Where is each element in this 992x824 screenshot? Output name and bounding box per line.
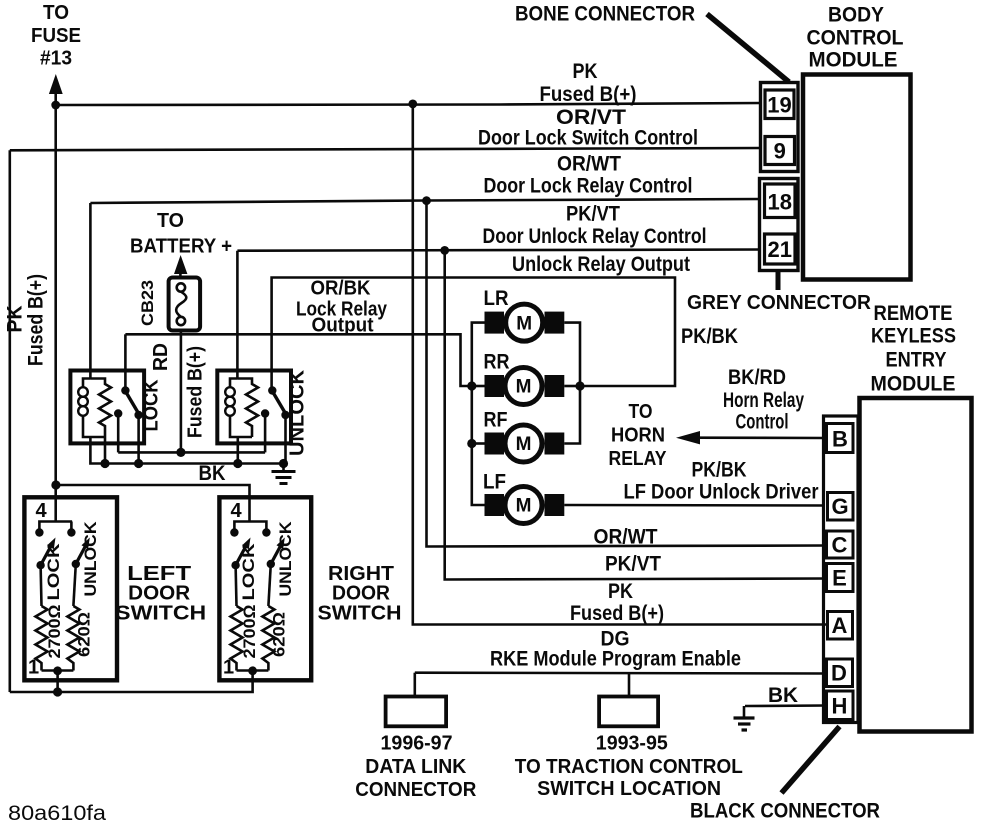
svg-text:PK: PK — [4, 306, 27, 333]
node junction row1/branch A — [408, 100, 417, 109]
svg-text:D: D — [831, 661, 847, 686]
svg-text:GREY CONNECTOR: GREY CONNECTOR — [687, 292, 872, 314]
relay UNLOCK switch — [261, 386, 290, 419]
node junction fuse — [51, 101, 60, 110]
svg-text:PK: PK — [608, 580, 633, 603]
wire motor right bus — [564, 323, 580, 444]
svg-text:KEYLESS: KEYLESS — [871, 325, 956, 348]
wire CB23 output (RD) down to relay common bus — [180, 331, 183, 453]
node junction row4/branch E — [440, 246, 449, 255]
wire lock relay output vertical — [124, 334, 127, 390]
wire left bus stub RR — [472, 385, 485, 388]
ground symbol (relay bus) — [272, 464, 296, 484]
relay LOCK switch — [114, 386, 143, 419]
node junction CB23/bus A — [176, 448, 185, 457]
pin 18 — [765, 184, 796, 218]
switch RIGHT DOOR SWITCH box S2 — [219, 497, 311, 680]
svg-text:Fused B(+): Fused B(+) — [570, 602, 664, 625]
left switch UNLOCK lever — [72, 538, 90, 569]
svg-text:RD: RD — [150, 343, 172, 371]
svg-text:1: 1 — [28, 657, 39, 679]
black connector pointer line — [782, 727, 840, 794]
node junction left bus RF — [467, 439, 476, 448]
svg-text:B: B — [832, 427, 848, 452]
wire bottom return bus — [10, 670, 253, 692]
label TO BATTERY + — [130, 210, 232, 258]
wire unlock relay coil feed vertical — [236, 251, 239, 379]
svg-text:PK/BK: PK/BK — [692, 459, 747, 482]
battery feed arrow — [174, 255, 187, 278]
node junction switch feed — [51, 480, 60, 489]
wire lock switch pole to line A — [117, 414, 120, 453]
remote keyless entry module box U3 — [860, 398, 972, 732]
svg-text:BONE CONNECTOR: BONE CONNECTOR — [515, 3, 695, 26]
svg-text:Door Lock Relay Control: Door Lock Relay Control — [484, 175, 693, 198]
node junction row3/branch C — [422, 196, 431, 205]
relay UNLOCK coil — [225, 379, 252, 438]
svg-text:1: 1 — [223, 657, 234, 679]
label 1993-95 TO TRACTION CONTROL SWITCH LOCATION — [515, 733, 743, 801]
connector block pins 19/9 — [761, 83, 799, 172]
motor RR — [484, 351, 565, 405]
svg-text:DATA LINK: DATA LINK — [365, 756, 467, 778]
label LEFT DOOR SWITCH — [115, 563, 206, 625]
motor LF — [483, 471, 564, 524]
ground symbol (pin H) — [734, 706, 755, 730]
wire OR/WT Door Lock Relay Control row to pin 18 — [90, 199, 762, 203]
relay LOCK coil — [78, 379, 105, 438]
node junction left bus RR — [467, 381, 476, 390]
svg-text:Control: Control — [736, 411, 789, 434]
svg-text:LOCK: LOCK — [45, 543, 63, 600]
svg-text:PK/VT: PK/VT — [605, 553, 661, 576]
node junction right bus RR (unlock output) — [575, 381, 584, 390]
svg-text:RF: RF — [484, 409, 508, 432]
wire lock relay coil feed vertical — [89, 203, 92, 379]
node junction left switch return — [53, 687, 62, 696]
svg-text:BK/RD: BK/RD — [728, 366, 786, 389]
wire fuse vertical to door switches — [54, 105, 57, 522]
wire lock coil return to ground bus — [104, 437, 107, 464]
svg-text:PK/VT: PK/VT — [566, 203, 620, 226]
svg-text:LOCK: LOCK — [141, 379, 163, 432]
svg-text:M: M — [516, 496, 532, 517]
pin B — [827, 424, 854, 453]
svg-text:BATTERY +: BATTERY + — [130, 236, 232, 258]
bone connector pointer line — [707, 14, 789, 82]
RKE connector strip — [824, 416, 859, 723]
wire lock coil corner drop — [90, 437, 285, 464]
pin G — [828, 493, 854, 521]
wire PK Fused B(+) row to pin 19 — [56, 103, 763, 105]
left switch T-bar — [35, 522, 75, 537]
svg-text:Fused B(+): Fused B(+) — [25, 274, 48, 366]
label BK/RD Horn Relay Control — [723, 366, 804, 434]
svg-text:UNLOCK: UNLOCK — [277, 521, 295, 596]
node junction — [100, 459, 109, 468]
svg-text:18: 18 — [768, 190, 792, 215]
wire left edge vertical (switch control) — [9, 150, 12, 692]
node junction — [134, 459, 143, 468]
svg-text:RR: RR — [484, 351, 510, 374]
svg-text:REMOTE: REMOTE — [874, 302, 953, 325]
svg-text:620Ω: 620Ω — [76, 612, 94, 657]
wire Unlock Relay Output row — [272, 278, 675, 391]
node junction ground stub — [279, 459, 288, 468]
svg-text:H: H — [832, 694, 848, 719]
wire RKE module program enable row D — [415, 671, 826, 674]
svg-text:OR/WT: OR/WT — [594, 526, 658, 549]
label OR/BK Lock Relay Output — [296, 278, 388, 337]
svg-text:80a610fa: 80a610fa — [8, 802, 106, 824]
svg-text:RKE Module Program Enable: RKE Module Program Enable — [490, 648, 741, 671]
svg-text:2700Ω: 2700Ω — [46, 604, 64, 658]
switch LEFT DOOR SWITCH box S1 — [24, 497, 117, 680]
svg-text:TO: TO — [43, 2, 69, 24]
svg-text:SWITCH: SWITCH — [115, 603, 206, 625]
svg-text:TO: TO — [157, 210, 184, 232]
wire left bus stub RF — [472, 442, 485, 445]
svg-text:9: 9 — [774, 139, 786, 164]
svg-text:DOOR: DOOR — [332, 583, 391, 605]
svg-text:M: M — [516, 377, 532, 398]
svg-text:E: E — [832, 566, 847, 591]
svg-text:TO: TO — [629, 401, 653, 423]
svg-text:19: 19 — [767, 93, 791, 118]
svg-text:UNLOCK: UNLOCK — [287, 369, 309, 456]
wire lock switch NC contact to ground bus — [137, 415, 140, 464]
wire PK/VT Door Unlock Relay Control row to pin 21 — [237, 250, 762, 251]
right switch resistor join — [237, 666, 269, 675]
left switch resistor join — [42, 666, 74, 692]
label 1996-97 DATA LINK CONNECTOR — [355, 733, 477, 802]
wire switch feed bus to right door switch — [56, 485, 250, 522]
svg-text:ENTRY: ENTRY — [886, 349, 947, 372]
wire motor left bus — [472, 323, 485, 505]
svg-text:Unlock Relay Output: Unlock Relay Output — [512, 253, 690, 276]
svg-text:CONNECTOR: CONNECTOR — [355, 779, 477, 801]
fuse feed arrow — [49, 74, 63, 106]
left switch LOCK lever — [36, 538, 55, 570]
svg-text:Fused B(+): Fused B(+) — [540, 83, 637, 106]
wire right bus stub RR — [564, 385, 580, 388]
pin 19 — [765, 90, 794, 119]
wire relay common bus (line A) — [118, 451, 265, 454]
svg-text:MODULE: MODULE — [809, 49, 898, 72]
svg-text:1996-97: 1996-97 — [381, 733, 453, 755]
wire unlock switch NC contact to ground bus — [284, 415, 287, 464]
connector box 1996-97 DLC — [386, 697, 447, 727]
svg-text:HORN: HORN — [611, 425, 665, 447]
wire LF motor to pin G — [564, 504, 826, 507]
relay LOCK coil resistor zigzag — [90, 379, 111, 438]
svg-text:SWITCH LOCATION: SWITCH LOCATION — [537, 778, 721, 800]
svg-text:A: A — [832, 613, 848, 638]
label RIGHT DOOR SWITCH — [318, 563, 402, 625]
right switch T-bar — [230, 522, 270, 537]
svg-text:C: C — [832, 533, 848, 558]
right switch UNLOCK lever — [267, 538, 285, 569]
svg-text:CB23: CB23 — [138, 280, 157, 326]
svg-text:Horn Relay: Horn Relay — [723, 389, 804, 412]
pin 21 — [765, 234, 796, 264]
circuit breaker CB23 — [169, 278, 201, 331]
svg-text:Fused B(+): Fused B(+) — [185, 346, 207, 438]
svg-text:UNLOCK: UNLOCK — [82, 521, 100, 596]
svg-text:4: 4 — [35, 500, 47, 522]
resistor 2700ohm (left switch) — [36, 565, 48, 670]
svg-text:21: 21 — [768, 237, 792, 262]
relay UNLOCK coil resistor zigzag — [237, 379, 258, 438]
svg-text:BODY: BODY — [828, 4, 884, 27]
svg-text:MODULE: MODULE — [871, 373, 956, 396]
right switch LOCK lever — [231, 538, 250, 570]
svg-text:Output: Output — [312, 315, 374, 337]
svg-text:Door Unlock Relay Control: Door Unlock Relay Control — [483, 225, 707, 248]
node junction — [233, 459, 242, 468]
pin E — [827, 564, 854, 592]
svg-text:Door Lock Switch Control: Door Lock Switch Control — [478, 127, 698, 150]
resistor 620ohm (left switch) — [67, 564, 79, 671]
connector block pins 18/21 (grey connector) — [760, 179, 799, 271]
body control module label — [807, 4, 904, 72]
svg-text:DOOR: DOOR — [128, 583, 191, 605]
label TO HORN RELAY — [609, 401, 668, 470]
grey connector stub — [776, 271, 781, 290]
resistor 2700ohm (right switch) — [231, 565, 243, 670]
svg-text:OR/WT: OR/WT — [557, 153, 621, 176]
svg-text:BK: BK — [768, 684, 798, 707]
node TO FUSE #13 label — [31, 2, 81, 70]
svg-text:CONTROL: CONTROL — [807, 27, 904, 50]
pin A — [828, 612, 853, 640]
wire drop to 1996-97 data link connector — [413, 673, 416, 697]
svg-text:BK: BK — [199, 462, 226, 485]
connector box 1993-95 traction — [599, 697, 658, 727]
svg-text:#13: #13 — [40, 48, 72, 70]
svg-text:PK/BK: PK/BK — [681, 325, 738, 348]
label REMOTE KEYLESS ENTRY MODULE — [871, 302, 957, 396]
pin H — [827, 691, 854, 720]
svg-text:LR: LR — [484, 287, 509, 310]
wire branch PK Fused B(+) vertical to row A — [413, 104, 826, 625]
svg-text:TO TRACTION CONTROL: TO TRACTION CONTROL — [515, 756, 743, 778]
relay LOCK box — [70, 371, 144, 444]
motor LR — [484, 287, 565, 341]
svg-text:FUSE: FUSE — [31, 25, 81, 47]
svg-text:RELAY: RELAY — [609, 448, 668, 470]
svg-text:LF Door Unlock Driver: LF Door Unlock Driver — [624, 481, 819, 504]
wire branch OR/WT vertical to row C — [427, 201, 827, 547]
body control module box U2 — [803, 75, 911, 280]
wire horn relay control (pin B) with arrow — [676, 431, 826, 444]
wire unlock switch pole to line A — [264, 414, 267, 453]
svg-text:LF: LF — [483, 471, 506, 494]
svg-text:620Ω: 620Ω — [271, 612, 289, 657]
wire drop to 1993-95 traction connector — [628, 673, 631, 697]
svg-text:LOCK: LOCK — [240, 543, 258, 600]
motor RF — [484, 409, 565, 463]
pin D — [827, 659, 853, 687]
wire OR/VT Door Lock Switch Control row to pin 9 — [10, 148, 762, 150]
svg-text:2700Ω: 2700Ω — [241, 604, 259, 658]
svg-text:1993-95: 1993-95 — [596, 733, 668, 755]
wire OR/BK lock relay output run — [125, 334, 471, 386]
svg-text:M: M — [516, 434, 532, 455]
wire unlock coil return to ground bus — [237, 437, 240, 464]
svg-text:SWITCH: SWITCH — [318, 603, 402, 625]
pin 9 — [765, 137, 795, 165]
relay UNLOCK box — [217, 371, 291, 444]
pin C — [827, 531, 854, 558]
svg-text:PK: PK — [573, 60, 598, 83]
wire ground to pin H — [745, 704, 826, 707]
svg-text:G: G — [831, 494, 848, 519]
svg-text:M: M — [516, 314, 532, 335]
resistor 620ohm (right switch) — [262, 564, 274, 671]
svg-text:4: 4 — [230, 500, 242, 522]
svg-text:OR/BK: OR/BK — [311, 278, 372, 300]
svg-text:BLACK CONNECTOR: BLACK CONNECTOR — [690, 800, 880, 823]
wire branch PK/VT vertical to row E — [445, 250, 826, 579]
